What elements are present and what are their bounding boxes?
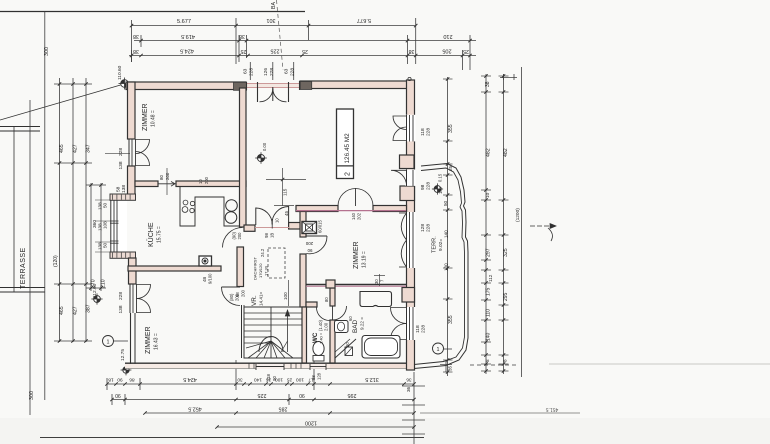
WC toilet (313, 342, 324, 356)
right dim column x=503.5 (482/325/295) (503, 74, 505, 374)
interior dim leader 115 near entry (266, 179, 306, 181)
svg-text:12.75: 12.75 (120, 349, 126, 361)
svg-text:8: 8 (485, 359, 490, 362)
svg-text:465: 465 (59, 306, 65, 315)
svg-text:112: 112 (488, 274, 493, 282)
svg-text:451.5: 451.5 (546, 406, 559, 412)
tiny circle at bottom-right wall corner (408, 367, 411, 370)
svg-text:90: 90 (307, 248, 312, 253)
left dim columns 465/427/347 (59, 78, 61, 342)
tick line over right leaf (274, 205, 294, 207)
BAD door leaf and arc (332, 306, 334, 320)
svg-text:200: 200 (204, 176, 209, 184)
right wall inner pier P2 between D1 and W3 (400, 186, 415, 201)
stair treads left column (244, 312, 271, 314)
double door arcs wall D (140/202) (355, 188, 357, 206)
circled 1 left with leader (103, 336, 114, 347)
vertical guide line at x=288 above stairs with 100 (288, 280, 290, 306)
window W1 right wall (living) (406, 115, 416, 142)
stair zone stubs in bottom wall (248, 363, 250, 368)
exterior left wall between window Z1 and bay (128, 166, 136, 196)
dim line top level-3 (38 / 424.5 / 25 / 225 / 25 / 205 / 25) (129, 55, 476, 57)
section arrow right middle (530, 225, 556, 227)
svg-text:175: 175 (486, 287, 492, 296)
svg-text:98: 98 (264, 233, 269, 238)
svg-text:TERRASSE: TERRASSE (20, 247, 27, 289)
bottom dim line D y=427 (1200) (217, 426, 414, 428)
svg-text:38: 38 (133, 48, 139, 54)
door Z2 from VR (leaf and arc) (222, 286, 241, 288)
svg-text:38: 38 (409, 48, 415, 54)
dark wall blocks flanking entry (234, 82, 247, 90)
svg-text:BAD: BAD (352, 319, 359, 333)
window Z2 in left wall (129, 284, 131, 313)
svg-text:9.22 =: 9.22 = (360, 317, 365, 330)
svg-text:4B: 4B (202, 277, 207, 282)
svg-text:DACHFIRST: DACHFIRST (253, 257, 258, 280)
stair center stringer (270, 307, 272, 358)
svg-text:14.41=: 14.41= (259, 292, 264, 306)
svg-text:2.00: 2.00 (324, 322, 329, 331)
svg-text:295: 295 (348, 392, 357, 398)
svg-text:126: 126 (263, 68, 269, 76)
shower drain box (345, 347, 353, 356)
left wall dims 58/138 above bay (105, 152, 130, 154)
wall B vertical (entry/kitchen east wall) (240, 88, 247, 227)
svg-text:35: 35 (448, 365, 453, 371)
svg-text:50: 50 (103, 202, 108, 208)
stair treads right column (271, 312, 302, 314)
svg-text:90: 90 (345, 342, 350, 347)
svg-text:ZIMMER: ZIMMER (353, 241, 360, 269)
svg-text:98: 98 (235, 292, 240, 297)
stair west wall thin (241, 305, 243, 358)
svg-text:387: 387 (86, 304, 92, 313)
svg-text:100: 100 (438, 186, 443, 194)
svg-text:100: 100 (296, 377, 304, 383)
svg-text:115: 115 (283, 188, 288, 196)
bay window dim ticks column 138/95/108/95/138 (95, 199, 112, 201)
svg-text:63: 63 (243, 68, 249, 74)
svg-text:30: 30 (374, 279, 379, 284)
terrace door D1 right wall (406, 170, 416, 186)
stair up arrow (287, 312, 289, 352)
svg-text:5.677: 5.677 (177, 19, 191, 25)
svg-text:1200: 1200 (305, 420, 317, 426)
svg-text:118: 118 (420, 128, 426, 136)
svg-text:1B: 1B (270, 233, 275, 238)
svg-text:9.02=: 9.02= (438, 239, 444, 251)
svg-text:452.5: 452.5 (188, 406, 202, 412)
svg-text:482: 482 (486, 148, 492, 157)
svg-text:228: 228 (426, 182, 432, 190)
svg-text:(120): (120) (53, 255, 59, 267)
svg-text:138: 138 (118, 161, 124, 169)
svg-text:424.5: 424.5 (183, 376, 197, 382)
svg-text:300: 300 (44, 47, 50, 56)
svg-text:202: 202 (357, 212, 362, 220)
right dim column x=486 (38/482/10/297/112/175/110/140) (485, 74, 487, 374)
bay mullion ticks (110, 220, 119, 222)
stair winder fan lines (248, 341, 271, 358)
svg-text:90: 90 (117, 377, 123, 383)
svg-text:301: 301 (267, 17, 276, 23)
svg-text:(1.40): (1.40) (318, 319, 323, 331)
svg-text:228: 228 (290, 68, 296, 76)
terrace left vertical line (13, 126, 15, 292)
boiler box on wall F2 (199, 256, 212, 266)
svg-text:98: 98 (420, 184, 426, 190)
svg-text:228: 228 (421, 325, 427, 333)
svg-text:0.00: 0.00 (262, 142, 267, 151)
svg-text:200: 200 (241, 289, 246, 297)
svg-text:36: 36 (406, 386, 411, 392)
svg-text:465: 465 (59, 144, 65, 153)
svg-text:58: 58 (116, 186, 122, 192)
exterior left wall upper (ZIMMER top-left) (128, 82, 136, 139)
svg-text:1: 1 (107, 339, 110, 345)
kitchen door arc in wall B (223, 228, 243, 248)
bottom dim line B y=399.5 (112, 399, 414, 401)
wall E vertical (VR east / zimmer13 west) (300, 209, 306, 237)
survey point on terrace 0.15/100 (432, 183, 443, 194)
exterior top wall left segment (126, 82, 246, 90)
svg-text:17.30: 17.30 (264, 265, 269, 276)
svg-text:138: 138 (118, 305, 124, 313)
svg-text:50: 50 (443, 200, 448, 206)
door zimmer13 in wall E (307, 235, 328, 237)
right bottom dashes and ticks (470, 364, 518, 366)
svg-text:210: 210 (101, 279, 107, 288)
svg-text:228: 228 (249, 68, 255, 76)
svg-text:80: 80 (159, 175, 164, 180)
svg-text:100: 100 (283, 292, 288, 300)
entry double door leaves (272, 87, 274, 101)
svg-text:KÜCHE: KÜCHE (147, 222, 155, 247)
level point living room (255, 152, 267, 164)
left dim line x=30 with label 300 bottom (29, 100, 31, 415)
dashed skylight box DACHFIRST (268, 248, 285, 278)
svg-text:10: 10 (275, 218, 280, 223)
bottom dim line A y=384 (107, 383, 414, 385)
stair box outline (244, 307, 302, 358)
dim arrow at kitchen top-left 200 (163, 183, 177, 185)
right wall inner pier P3 between W3 and W4 (402, 288, 415, 303)
svg-text:16.43 =: 16.43 = (154, 333, 160, 350)
svg-text:VR.: VR. (251, 295, 258, 306)
svg-text:38: 38 (485, 81, 491, 87)
svg-text:170/120: 170/120 (258, 263, 263, 278)
svg-text:25: 25 (287, 378, 293, 383)
svg-text:285: 285 (279, 406, 288, 412)
kitchen sink circles (226, 200, 238, 212)
svg-text:100: 100 (444, 263, 449, 271)
chimney box with X (302, 222, 317, 234)
window W3 right wall (zimmer 13.19) (406, 212, 416, 268)
WC east / BAD west wall (330, 288, 335, 306)
svg-text:36: 36 (406, 377, 412, 383)
survey point 112.60 (91, 293, 102, 304)
svg-text:86: 86 (129, 377, 135, 383)
window W4 right wall (bad) (406, 307, 416, 340)
wall C stubs flanking double door to VR (244, 225, 255, 231)
svg-text:210: 210 (443, 33, 452, 39)
wall B lower extension (VR west wall) (237, 247, 244, 287)
terrace upper edge lines (0, 126, 40, 128)
right inner dim column x=447.6 (355/25/100/50/140/355) (447, 77, 449, 376)
left wall thin lower part under window Z2 (130, 313, 132, 364)
svg-text:300: 300 (29, 391, 35, 400)
svg-text:58: 58 (311, 375, 316, 380)
svg-text:424.5: 424.5 (180, 48, 194, 54)
corridor/WC north wall (306, 302, 317, 307)
svg-text:5.677: 5.677 (357, 17, 371, 23)
svg-text:297: 297 (486, 248, 492, 257)
svg-text:128: 128 (420, 224, 426, 232)
svg-text:228: 228 (269, 68, 275, 76)
kitchen counter U shape (180, 187, 240, 227)
svg-text:140: 140 (486, 332, 492, 341)
WC door arc (317, 308, 330, 321)
svg-text:140: 140 (444, 230, 449, 238)
entry threshold line (247, 83, 300, 88)
svg-text:355: 355 (448, 124, 454, 133)
svg-text:1: 1 (437, 347, 440, 353)
svg-text:8: 8 (503, 359, 508, 362)
svg-text:312.5: 312.5 (365, 376, 379, 382)
entry door sidelight frames (257, 82, 259, 102)
svg-text:90: 90 (299, 392, 305, 398)
svg-text:200: 200 (165, 172, 170, 180)
terrace faceted boundary inner (414, 168, 465, 365)
window in bottom wall at WC (310, 364, 326, 369)
window in bottom wall under stairs (256, 364, 284, 369)
bottom right descender ticks (402, 385, 425, 387)
svg-text:38: 38 (133, 33, 139, 39)
svg-text:427: 427 (73, 144, 79, 153)
svg-text:ZIMMER: ZIMMER (145, 326, 152, 354)
svg-text:10: 10 (198, 179, 203, 184)
svg-text:13.19 =: 13.19 = (362, 251, 368, 268)
svg-text:2: 2 (345, 172, 352, 176)
svg-text:9/100: 9/100 (208, 273, 213, 284)
svg-text:90: 90 (272, 376, 277, 381)
double door leaves and arcs wall C (255, 208, 257, 226)
diagonal sight line to corner point (0, 84, 124, 120)
svg-text:50: 50 (103, 242, 108, 248)
bathtub (362, 336, 400, 359)
svg-text:355: 355 (448, 315, 454, 324)
svg-text:63: 63 (284, 68, 290, 74)
svg-text:228: 228 (426, 224, 432, 232)
exterior top wall right segment (300, 81, 409, 89)
dim line top level-2 (38 / 419.5 / 38 / 210) (134, 40, 476, 42)
stair east wall (302, 307, 307, 363)
svg-text:228: 228 (118, 292, 124, 300)
svg-text:90: 90 (115, 392, 121, 398)
wall D living/zimmer13 with magenta cast (296, 206, 338, 212)
svg-text:ZIMMER: ZIMMER (142, 103, 149, 131)
svg-text:200: 200 (237, 232, 242, 240)
terrace lower edge lines (0, 287, 45, 289)
svg-text:10: 10 (485, 192, 491, 198)
leader 30/7 on zimmer13 south wall (379, 274, 381, 286)
corridor pier (326, 280, 335, 288)
svg-text:128: 128 (317, 372, 322, 380)
svg-text:482: 482 (503, 148, 509, 157)
bottom dim line E y=437.5 (40, 437, 424, 439)
svg-text:24.2: 24.2 (260, 248, 265, 257)
stair winder curve (259, 337, 283, 353)
svg-text:140: 140 (254, 377, 262, 383)
svg-text:30: 30 (237, 378, 243, 383)
dim line top level-1 (5.677 / 301 / 5.677) (131, 25, 416, 27)
survey point 110.60 at top-left corner (119, 78, 131, 90)
svg-text:10.48 =: 10.48 = (151, 110, 157, 127)
svg-text:138: 138 (121, 185, 127, 193)
svg-text:38: 38 (239, 33, 245, 39)
corner circle top right (408, 77, 411, 80)
bottom dim line C y=413 (145, 412, 414, 414)
exterior right wall (407, 80, 415, 370)
svg-text:126.45 M2: 126.45 M2 (344, 133, 351, 164)
exterior bottom wall (thin double line with pale fill) (125, 364, 414, 369)
svg-text:225: 225 (271, 48, 280, 54)
svg-text:BA: BA (271, 2, 277, 9)
site boundary line top (0, 11, 305, 13)
svg-text:45: 45 (284, 211, 289, 216)
section line BA (dash-dot, top) (277, 0, 284, 70)
svg-text:60/015: 60/015 (318, 220, 323, 233)
circled 1 right with leader (433, 343, 444, 354)
svg-text:295: 295 (503, 292, 509, 301)
svg-text:228: 228 (118, 148, 124, 156)
top right small ticks (503, 74, 505, 80)
svg-text:360: 360 (92, 220, 98, 228)
svg-text:110: 110 (486, 309, 492, 317)
svg-text:228: 228 (426, 128, 432, 136)
svg-text:(1200): (1200) (515, 208, 521, 222)
svg-text:0.15: 0.15 (438, 173, 443, 182)
svg-text:25: 25 (302, 48, 308, 54)
svg-text:427: 427 (73, 306, 79, 315)
svg-text:325: 325 (503, 248, 509, 257)
svg-text:200: 200 (305, 241, 313, 246)
svg-text:25: 25 (241, 48, 247, 54)
svg-text:25: 25 (463, 48, 469, 54)
kitchen bay window (110, 200, 127, 252)
svg-text:(90): (90) (232, 231, 237, 239)
svg-text:225: 225 (258, 392, 267, 398)
BAD shower diagonal (335, 339, 356, 358)
svg-text:15.75 =: 15.75 = (157, 226, 163, 243)
svg-text:80: 80 (324, 297, 329, 302)
zimmer13 south wall (thin, magenta) (306, 284, 406, 286)
survey point at bottom-left corner (121, 365, 132, 376)
left dim pair 270/210 (90, 183, 92, 291)
window Z1 in left wall (128, 139, 130, 166)
svg-text:110.60: 110.60 (117, 65, 123, 80)
BAD vanity with two basins (360, 292, 392, 307)
left dim line x=45 with label 300 top (44, 12, 46, 401)
kitchen hob burners (183, 200, 188, 205)
svg-text:(80): (80) (229, 293, 234, 301)
bay hatched end caps (110, 194, 136, 200)
svg-text:118: 118 (415, 325, 421, 333)
svg-text:419.5: 419.5 (181, 33, 195, 39)
wall F between zimmer top-left and kitchen (135, 181, 158, 187)
svg-text:1.40 =: 1.40 = (319, 332, 324, 344)
area box 2 / 126.45 M2 (337, 109, 354, 179)
svg-text:140: 140 (351, 212, 356, 220)
svg-text:TERR.: TERR. (432, 236, 438, 253)
svg-text:118: 118 (266, 373, 271, 381)
wall F2 kitchen/VR south wall (128, 266, 221, 271)
svg-text:347: 347 (86, 144, 92, 153)
svg-text:108: 108 (103, 221, 108, 229)
terrace faceted boundary outer (414, 164, 468, 369)
right wall inner pier P1 between W1 and D1 (400, 155, 415, 169)
faint line bottom right (549, 363, 770, 365)
BAD small sink (335, 321, 349, 333)
svg-text:18: 18 (108, 377, 114, 383)
svg-text:205: 205 (442, 48, 451, 54)
exterior left wall below bay (129, 258, 137, 284)
right outer long line x=521.5 (521, 67, 523, 377)
entry door dimension ticks and rotated numbers 63/228 126/228 63/228 (249, 62, 251, 80)
